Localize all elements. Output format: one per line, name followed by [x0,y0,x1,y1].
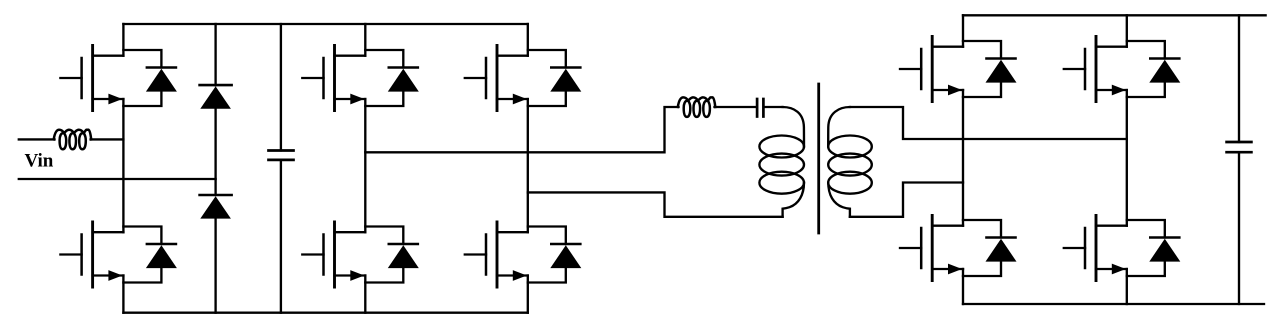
wire: diode leg top segment [214,24,216,85]
wire: bottom rail of secondary full bridge [963,303,1264,305]
body diode of Q7 [963,41,1017,97]
transformer T1 primary winding [759,107,804,217]
wire: output capacitor leg bottom [1238,152,1240,304]
wire: rectifier leg x=963 mid vertical [962,90,964,226]
wire: diode leg middle segment [214,109,216,195]
wire: input leg mid vertical (node A) [122,99,124,232]
inductor Lr [678,97,716,117]
body diode of Q6 [528,227,582,283]
transistor Q6 [465,222,528,287]
capacitor C1 [269,151,294,160]
body diode of Q5 [528,50,582,106]
transistor Q1 [60,46,123,111]
transistor Q7 [900,37,963,102]
wire: Vin+ input wire [19,138,124,140]
wire: rectifier leg x=963 drain stub [962,15,964,46]
wire: bridge leg x=527.8 drain stub [527,24,529,56]
wire: bridge leg x=527.8 source-to-rail [527,276,529,313]
diode D2 [200,195,232,219]
capacitor C2 (output filter) [1227,142,1252,152]
wire: Vin- input wire [19,178,216,180]
wire: bridge leg x=527.8 mid vertical [527,99,529,232]
wire: input leg source-to-rail [122,276,124,313]
wire: secondary top lead to rectifier leg2 [850,107,1127,139]
transistor Q9 [1064,37,1127,102]
body diode of Q9 [1127,41,1181,97]
wire: bridge leg x=365.3 source-to-rail [364,276,366,313]
body diode of Q3 [365,50,419,106]
transistor Q8 [900,216,963,281]
wire: top rail of secondary full bridge [963,14,1266,16]
wire: bridge leg x=365.3 mid vertical [364,99,366,232]
wire: rectifier leg x=1126.8 mid vertical [1126,90,1128,226]
wire: rectifier leg x=1126.8 source-to-rail [1126,269,1128,304]
wire: capacitor Cr to transformer primary [765,106,783,108]
transistor Q2 [60,222,123,287]
transformer T1 secondary winding [828,107,872,217]
body diode of Q4 [365,227,419,283]
transformer T1 core [817,84,820,233]
wire: bridge leg2 midpoint to transformer primary (lower) [528,192,783,216]
wire: diode leg bottom segment [214,219,216,313]
wire: capacitor leg bottom [280,160,282,313]
transistor Q10 [1064,216,1127,281]
wire: bottom rail of input stage and primary full bridge [123,312,527,314]
diode D1 [200,85,232,109]
body diode of Q10 [1127,220,1181,276]
body diode of Q8 [963,220,1017,276]
body diode of Q2 [123,227,176,283]
wire: capacitor leg top [280,24,282,151]
wire: bridge leg x=365.3 drain stub [364,24,366,56]
wire: top rail of input stage and primary full bridge [123,23,527,25]
transistor Q4 [302,222,365,287]
wire: input leg drain stub [122,24,124,56]
svg-text:Vin: Vin [25,151,54,172]
wire: rectifier leg x=963 source-to-rail [962,269,964,304]
inductor L1 [54,130,91,150]
wire: bridge leg1 midpoint to resonant tank (upper) [365,107,756,152]
capacitor Cr [757,99,763,117]
transistor Q3 [302,46,365,111]
wire: secondary bottom lead to rectifier leg1 [850,183,963,217]
wire: rectifier leg x=1126.8 drain stub [1126,15,1128,46]
transistor Q5 [465,46,528,111]
body diode of Q1 [123,50,176,106]
wire: output capacitor leg top [1238,15,1240,142]
